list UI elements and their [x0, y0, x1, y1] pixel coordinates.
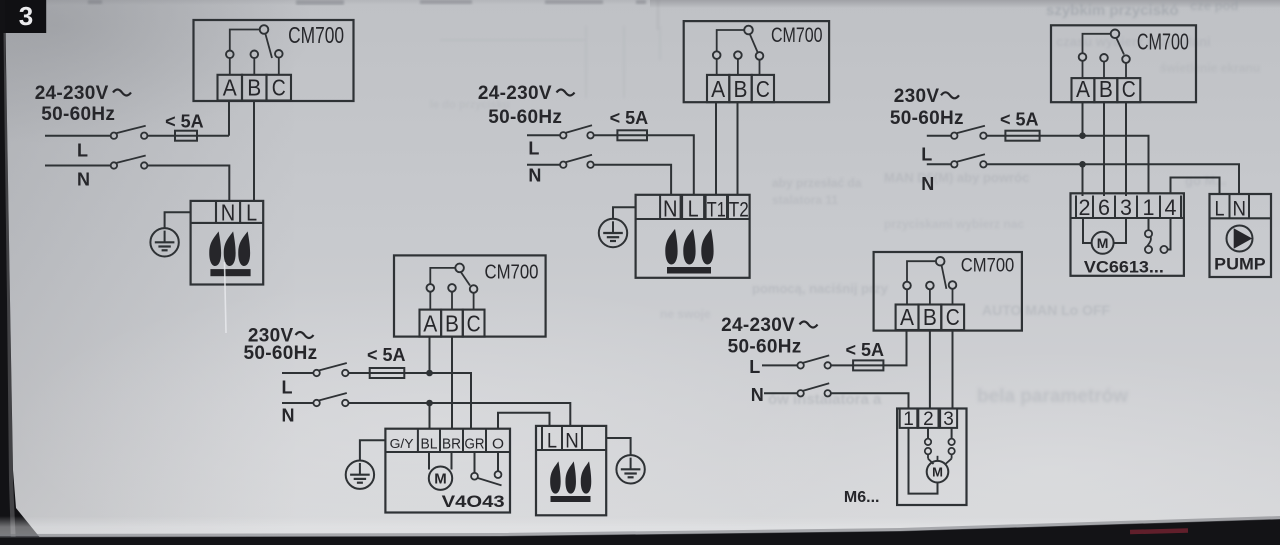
svg-text:< 5A: < 5A	[367, 345, 406, 365]
thermostat U1 CM700 enclosure	[194, 20, 354, 101]
fuse rating < 5A (diagram 4)	[367, 345, 406, 365]
label PUMP (diagram 3)	[1214, 256, 1266, 274]
wire N branch to BL terminal (diagram 4)	[429, 403, 431, 429]
valve end switch arm (diagram 4)	[478, 478, 502, 485]
wire N to pump N (diagram 3)	[987, 164, 1239, 194]
boiler box (diagram 1)	[191, 201, 264, 285]
relay moving arm (U5)	[942, 266, 947, 289]
relay contact pin B (U3)	[1100, 54, 1108, 62]
svg-text:B: B	[1099, 76, 1113, 102]
fuse F5 (diagram 5)	[853, 360, 883, 370]
terminal C (U4)	[463, 310, 485, 337]
wire N supply segment (diagram 2)	[527, 164, 560, 166]
relay contact pin A (U2)	[713, 51, 721, 59]
svg-text:4: 4	[1165, 195, 1177, 220]
boiler terminal N label (diagram 1)	[221, 200, 236, 226]
valve end switch arm (diagram 3)	[1147, 237, 1151, 247]
svg-text:50-60Hz: 50-60Hz	[890, 108, 964, 129]
svg-text:M: M	[434, 471, 447, 488]
relay contact pin A (U4)	[427, 284, 435, 292]
burner flame symbol (diagram 1)	[209, 231, 250, 266]
terminal A (U3)	[1072, 76, 1095, 102]
svg-text:24-230V: 24-230V	[478, 83, 552, 104]
svg-text:24-230V: 24-230V	[35, 83, 109, 104]
switch S2 live pole (diagram 2)	[560, 125, 594, 138]
label V4O43 (diagram 4)	[442, 492, 505, 511]
svg-text:< 5A: < 5A	[1000, 109, 1039, 129]
svg-text:N: N	[663, 196, 678, 222]
earth symbol right (diagram 4)	[616, 455, 644, 483]
svg-text:L: L	[282, 378, 293, 398]
pump terminal labels L N (diagram 3)	[1215, 197, 1246, 220]
switch S1 neutral pole (diagram 1)	[111, 156, 148, 169]
wire B to actuator terminal 2 (diagram 5)	[929, 330, 931, 409]
label L (diagram 4)	[282, 378, 293, 398]
relay moving arm (U1)	[265, 34, 272, 58]
pin stub C (U2)	[759, 59, 761, 75]
white scratch artifact	[225, 262, 227, 333]
junction dot L to A (diagram 4)	[426, 370, 433, 377]
svg-text:3: 3	[943, 409, 954, 430]
fuse F3 (diagram 3)	[1005, 131, 1039, 141]
relay common wire from pin A to pivot (U2)	[717, 30, 744, 52]
svg-text:MAN D5(M) aby powróc: MAN D5(M) aby powróc	[884, 170, 1029, 185]
label CM700 (U5)	[961, 255, 1015, 277]
svg-text:50-60Hz: 50-60Hz	[244, 343, 318, 364]
svg-text:1: 1	[903, 409, 914, 430]
pump box (diagram 3)	[1210, 194, 1272, 277]
svg-text:C: C	[946, 304, 960, 330]
relay contact pin A (U5)	[903, 282, 911, 290]
wire fuse to terminal A (diagram 1)	[228, 101, 230, 136]
earth wire to boiler (diagram 2)	[613, 207, 636, 219]
pin stub C (U1)	[278, 57, 280, 75]
svg-text:L: L	[77, 141, 88, 161]
pin stub C (U5)	[952, 288, 954, 304]
svg-text:L: L	[1215, 197, 1225, 220]
wire valve terminal 4 to pump L (diagram 3)	[1171, 178, 1220, 195]
label N (diagram 1)	[77, 169, 90, 189]
svg-text:CM700: CM700	[961, 255, 1015, 277]
wire L through fuse to GR (diagram 4)	[349, 373, 472, 429]
label N (diagram 4)	[282, 406, 295, 426]
svg-text:BL: BL	[421, 436, 438, 453]
relay pivot (U5)	[936, 257, 945, 266]
label CM700 (U3)	[1137, 29, 1189, 55]
svg-text:M: M	[932, 464, 943, 479]
switch S5 live pole (diagram 5)	[797, 355, 831, 368]
fuse rating < 5A (diagram 2)	[610, 108, 649, 128]
label CM700 (U4)	[485, 262, 539, 284]
svg-text:L: L	[547, 430, 557, 453]
svg-text:AUTO MAN Lo OFF: AUTO MAN Lo OFF	[982, 302, 1111, 318]
terminal C (U3)	[1117, 76, 1140, 102]
wire L supply segment (diagram 3)	[927, 135, 951, 137]
earth symbol (diagram 2)	[599, 219, 627, 247]
svg-text:< 5A: < 5A	[610, 108, 649, 128]
terminal B (U3)	[1094, 76, 1117, 102]
label L (diagram 3)	[921, 145, 932, 165]
wire L supply segment (diagram 5)	[762, 364, 797, 366]
svg-text:50-60Hz: 50-60Hz	[41, 104, 115, 125]
label N (diagram 2)	[528, 165, 541, 185]
terminal C (U5)	[941, 304, 964, 330]
svg-text:N: N	[528, 165, 541, 185]
wire B to boiler L (diagram 1)	[253, 101, 255, 201]
svg-text:A: A	[1076, 76, 1091, 102]
relay common wire from pin A to pivot (U5)	[907, 261, 935, 282]
burner grate bar (diagram 4)	[551, 496, 591, 502]
actuator connector pins terminal 2 (diagram 5)	[925, 428, 931, 459]
relay pivot (U1)	[260, 25, 269, 34]
black page-number tab	[0, 0, 46, 33]
svg-text:G/Y: G/Y	[390, 436, 414, 451]
svg-text:B: B	[734, 76, 748, 102]
relay contact pin A (U1)	[226, 51, 234, 59]
svg-text:M: M	[1097, 235, 1109, 251]
fuse F4 (diagram 4)	[370, 368, 405, 378]
relay moving arm (U2)	[750, 34, 758, 52]
switch S4 neutral pole (diagram 4)	[313, 393, 348, 406]
boiler terminal labels L N (diagram 4)	[547, 430, 579, 453]
valve end switch GR contact (diagram 4)	[471, 452, 478, 480]
svg-text:N: N	[1232, 197, 1246, 220]
page number 3	[19, 1, 33, 31]
fuse F1 (diagram 1)	[175, 131, 197, 141]
burner grate bar (diagram 1)	[210, 269, 250, 276]
supply labels (diagram 5)	[721, 315, 817, 358]
pin stub B (U2)	[737, 58, 739, 75]
svg-text:C: C	[467, 311, 481, 337]
pin stub C (U4)	[473, 292, 475, 309]
valve V4043 box (diagram 4)	[385, 429, 510, 513]
svg-text:N: N	[751, 385, 764, 405]
actuator terminal cells 1 2 3 (diagram 5)	[900, 409, 957, 431]
svg-text:A: A	[223, 75, 238, 101]
svg-text:CM700: CM700	[771, 24, 823, 47]
svg-text:PUMP: PUMP	[1214, 256, 1266, 274]
relay moving arm (U3)	[1116, 38, 1124, 54]
pin stub C (U3)	[1125, 62, 1127, 78]
supply labels (diagram 3)	[890, 86, 964, 129]
svg-text:L: L	[246, 200, 257, 226]
wire from switch to fuse (diagram 1)	[147, 135, 229, 137]
wire N to boiler N (diagram 4)	[349, 403, 571, 426]
relay contact pin B (U4)	[448, 284, 456, 292]
relay contact pin A (U3)	[1079, 53, 1087, 61]
svg-text:bela parametrów: bela parametrów	[977, 386, 1128, 407]
label L (diagram 5)	[749, 357, 760, 377]
wire N supply segment (diagram 1)	[45, 165, 111, 167]
svg-text:B: B	[247, 75, 261, 101]
pin stub A (U1)	[229, 58, 231, 75]
wire A down to L line (diagram 4)	[429, 337, 431, 373]
actuator M6 box (diagram 5)	[897, 409, 966, 506]
svg-text:A: A	[423, 311, 438, 337]
wire A down to L line (diagram 3)	[1082, 102, 1084, 136]
svg-text:L: L	[528, 139, 539, 159]
boiler terminal L label (diagram 1)	[246, 200, 257, 226]
svg-text:2: 2	[1079, 195, 1091, 220]
wire N to boiler (diagram 1)	[147, 166, 229, 201]
wire B to BR terminal (diagram 4)	[451, 337, 453, 429]
svg-text:pomocą, naciśnij przy: pomocą, naciśnij przy	[752, 281, 889, 296]
label VC6613... (diagram 3)	[1084, 259, 1164, 277]
wire N supply segment (diagram 5)	[764, 392, 797, 394]
valve motor wiring (diagram 3)	[1083, 218, 1126, 243]
svg-text:A: A	[900, 304, 915, 330]
svg-text:C: C	[1122, 76, 1136, 102]
relay contact pin B (U1)	[251, 51, 259, 59]
boiler box (diagram 2)	[636, 195, 750, 278]
valve terminal labels G/Y BL BR GR O (diagram 4)	[390, 436, 504, 453]
page bottom edge highlight	[0, 516, 1100, 536]
wire L supply segment (diagram 2)	[527, 134, 560, 136]
wire N to actuator terminal 1 (diagram 5)	[831, 393, 909, 408]
svg-text:6: 6	[1098, 195, 1110, 220]
label N (diagram 5)	[751, 385, 764, 405]
svg-text:przyciskami wybierz nac: przyciskami wybierz nac	[884, 217, 1024, 231]
valve end switch contact c to terminal 4 (diagram 3)	[1160, 218, 1170, 253]
switch S3 neutral pole (diagram 3)	[951, 154, 987, 167]
svg-text:BR: BR	[442, 436, 461, 453]
boiler box (diagram 4)	[536, 426, 606, 515]
thermostat U5 CM700 enclosure	[874, 252, 1022, 331]
boiler terminal labels N L T1 T2 (diagram 2)	[663, 196, 749, 222]
label L (diagram 2)	[528, 139, 539, 159]
terminal A (U5)	[896, 304, 919, 330]
faint show-through text from reverse page side	[88, 0, 1260, 408]
svg-text:M6...: M6...	[844, 489, 880, 506]
svg-text:CM700: CM700	[288, 22, 344, 48]
earth symbol (diagram 1)	[150, 228, 178, 256]
valve motor M (diagram 3)	[1092, 232, 1114, 254]
earth wire to boiler (diagram 1)	[165, 212, 191, 228]
switch S2 neutral pole (diagram 2)	[560, 155, 594, 168]
wire L supply segment (diagram 4)	[282, 372, 313, 374]
actuator motor feed diagonals (diagram 5)	[928, 456, 952, 464]
svg-text:24-230V: 24-230V	[721, 315, 795, 336]
supply labels (diagram 2)	[478, 83, 575, 128]
svg-text:O: O	[492, 436, 504, 453]
earth wire to valve (diagram 4)	[360, 440, 386, 460]
svg-text:50-60Hz: 50-60Hz	[488, 107, 562, 128]
wire B to valve terminal 6 (diagram 3)	[1103, 102, 1105, 196]
wire C to actuator terminal 3 (diagram 5)	[952, 330, 954, 409]
svg-text:50-60Hz: 50-60Hz	[728, 337, 802, 358]
supply labels (diagram 1)	[35, 83, 131, 125]
fuse rating < 5A (diagram 1)	[165, 112, 204, 132]
thermostat U4 CM700 enclosure	[394, 255, 546, 336]
thermostat U2 CM700 enclosure	[684, 21, 829, 102]
svg-text:GR: GR	[465, 436, 485, 453]
pin stub A (U4)	[429, 291, 431, 309]
relay contact pin B (U2)	[734, 51, 742, 59]
switch S5 neutral pole (diagram 5)	[797, 383, 831, 396]
svg-text:N: N	[77, 169, 90, 189]
burner flame symbol (diagram 4)	[550, 461, 591, 493]
burner grate bar (diagram 2)	[667, 267, 711, 274]
wire C to valve terminal 3 (diagram 3)	[1125, 102, 1127, 196]
valve motor M (diagram 4)	[429, 467, 452, 490]
wire B to T2 (diagram 2)	[737, 102, 739, 195]
svg-text:A: A	[711, 76, 726, 102]
junction dot N to valve 2 (diagram 3)	[1079, 161, 1086, 168]
wire L supply segment (diagram 1)	[45, 135, 111, 137]
pin stub A (U5)	[906, 289, 908, 305]
relay contact pin B (U5)	[926, 282, 934, 290]
actuator motor M (diagram 5)	[927, 461, 949, 483]
actuator return wire 1 to motor (diagram 5)	[909, 428, 938, 494]
svg-text:B: B	[445, 311, 459, 337]
terminal B (U2)	[729, 75, 751, 102]
actuator connector pins terminal 3 (diagram 5)	[948, 428, 954, 459]
fuse F2 (diagram 2)	[617, 130, 647, 140]
svg-text:230V: 230V	[894, 86, 940, 107]
svg-text:3: 3	[1120, 195, 1132, 220]
svg-text:świetlenie ekranu: świetlenie ekranu	[1160, 61, 1260, 75]
relay pivot (U3)	[1111, 30, 1120, 39]
relay contact pin C (U4)	[470, 285, 478, 293]
black bottom photo band	[0, 516, 1280, 545]
valve end switch O contact (diagram 4)	[495, 452, 502, 478]
svg-text:V4O43: V4O43	[442, 492, 505, 511]
svg-text:szybkim przyciskó: szybkim przyciskó	[1046, 2, 1179, 19]
terminal C (U1)	[267, 75, 292, 101]
valve terminal digits 2 6 3 1 4 (diagram 3)	[1079, 195, 1177, 220]
earth symbol left (diagram 4)	[346, 461, 374, 489]
svg-text:T2: T2	[729, 199, 749, 222]
relay common wire from pin A to pivot (U1)	[230, 30, 259, 51]
pump impeller symbol (diagram 3)	[1227, 226, 1253, 252]
svg-text:ne swoje: ne swoje	[660, 307, 711, 321]
earth wire to boiler (diagram 4)	[606, 438, 630, 455]
terminal B (U4)	[441, 310, 463, 337]
svg-text:N: N	[921, 174, 934, 194]
svg-text:< 5A: < 5A	[165, 112, 204, 132]
wire L through fuse to valve terminal 1 (diagram 3)	[987, 136, 1149, 194]
terminal A (U1)	[218, 75, 243, 101]
svg-text:L: L	[688, 196, 699, 222]
relay contact pin C (U1)	[275, 50, 283, 58]
svg-text:L: L	[749, 357, 760, 377]
wire switch to fuse and boiler L (diagram 2)	[594, 135, 694, 195]
valve VC6613 box (diagram 3)	[1071, 193, 1184, 275]
wire A to T1 (diagram 2)	[715, 102, 717, 195]
svg-text:aby przesłać da: aby przesłać da	[772, 176, 862, 190]
svg-text:VC6613...: VC6613...	[1084, 259, 1164, 277]
label CM700 (U1)	[288, 22, 344, 48]
valve end switch wire from 1 (diagram 3)	[1148, 218, 1150, 230]
svg-text:stalatora 11: stalatora 11	[772, 193, 838, 207]
svg-text:2: 2	[923, 409, 934, 430]
svg-text:N: N	[221, 200, 236, 226]
svg-text:N: N	[565, 430, 579, 453]
switch S1 live pole (diagram 1)	[111, 126, 148, 139]
valve end switch contact b (diagram 3)	[1145, 246, 1152, 253]
relay moving arm (U4)	[461, 272, 470, 285]
terminal A (U4)	[420, 310, 442, 337]
thermostat U3 CM700 enclosure	[1051, 25, 1196, 102]
junction dot L to A (diagram 3)	[1079, 132, 1086, 139]
label L (diagram 1)	[77, 141, 88, 161]
wire N supply segment (diagram 3)	[927, 163, 951, 165]
fuse rating < 5A (diagram 5)	[846, 340, 885, 360]
switch S3 live pole (diagram 3)	[951, 126, 987, 139]
relay contact pin C (U3)	[1122, 55, 1130, 63]
terminal A (U2)	[707, 75, 729, 102]
relay pivot (U4)	[455, 264, 464, 273]
svg-text:T1: T1	[707, 199, 726, 222]
pin stub B (U1)	[253, 58, 255, 75]
label CM700 (U2)	[771, 24, 823, 47]
wire N branch to valve terminal 2 (diagram 3)	[1082, 164, 1084, 196]
pin stub B (U3)	[1103, 61, 1105, 78]
label M6... (diagram 5)	[844, 489, 880, 506]
label N (diagram 3)	[921, 174, 934, 194]
black left photo edge	[0, 0, 46, 545]
svg-text:< 5A: < 5A	[846, 340, 885, 360]
svg-text:3: 3	[19, 1, 33, 31]
svg-text:CM700: CM700	[485, 262, 539, 284]
junction dot N to BL (diagram 4)	[426, 400, 433, 407]
terminal B (U1)	[242, 75, 267, 101]
svg-text:C: C	[756, 76, 770, 102]
terminal C (U2)	[752, 75, 774, 102]
wire N to boiler N (diagram 2)	[594, 165, 671, 195]
relay common wire from pin A to pivot (U4)	[430, 268, 454, 285]
supply labels (diagram 4)	[244, 326, 318, 365]
svg-text:C: C	[272, 75, 286, 101]
switch S4 live pole (diagram 4)	[313, 363, 348, 376]
valve end switch contact a (diagram 3)	[1145, 230, 1152, 237]
relay contact pin C (U2)	[756, 52, 764, 60]
svg-text:cze pod: cze pod	[1190, 0, 1238, 13]
svg-text:1: 1	[1143, 195, 1155, 220]
relay pivot (U2)	[744, 26, 753, 35]
pin stub B (U4)	[451, 291, 453, 309]
relay contact pin C (U5)	[949, 281, 957, 289]
wire O to boiler L (diagram 4)	[498, 413, 550, 429]
wire L through fuse to A (diagram 5)	[831, 330, 907, 365]
svg-text:CM700: CM700	[1137, 29, 1189, 55]
terminal B (U5)	[919, 304, 942, 330]
pin stub A (U3)	[1082, 60, 1084, 78]
pin stub A (U2)	[716, 58, 718, 75]
relay common wire from pin A to pivot (U3)	[1083, 34, 1111, 54]
pin stub B (U5)	[929, 289, 931, 305]
svg-text:N: N	[282, 406, 295, 426]
svg-text:L: L	[921, 145, 932, 165]
svg-text:B: B	[923, 304, 937, 330]
burner flame symbol (diagram 2)	[665, 229, 713, 265]
wire N supply segment (diagram 4)	[282, 402, 313, 404]
fuse rating < 5A (diagram 3)	[1000, 109, 1039, 129]
valve motor wires (diagram 4)	[429, 452, 452, 470]
